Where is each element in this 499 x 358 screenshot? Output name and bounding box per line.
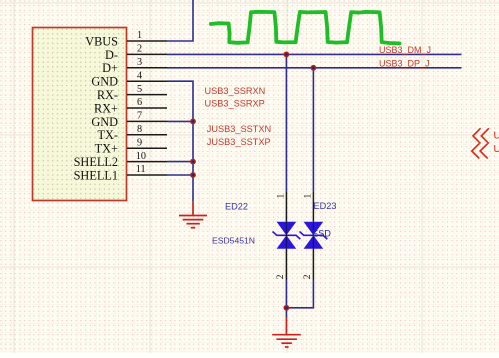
svg-text:4: 4 [137, 70, 142, 81]
svg-text:TX+: TX+ [95, 142, 118, 156]
off-sheet connector 1 [473, 128, 489, 143]
ground 2 [272, 317, 301, 347]
wire pin 10 [167, 161, 193, 163]
wire to ground 2 [285, 308, 287, 318]
pin 10 SHELL2 [74, 151, 167, 169]
svg-text:ESD: ESD [312, 229, 331, 239]
svg-text:9: 9 [137, 137, 142, 148]
pin 9 TX+ [95, 137, 167, 155]
svg-text:TX-: TX- [98, 128, 119, 142]
svg-text:GND: GND [91, 75, 118, 89]
wire ED23 bottom [286, 280, 313, 308]
svg-text:2: 2 [303, 274, 313, 279]
off-sheet connector 2 [472, 144, 488, 159]
junction ground 2 [284, 305, 290, 311]
pin 2 D- [105, 44, 167, 62]
svg-text:11: 11 [136, 164, 146, 175]
svg-text:USB3_DP_J: USB3_DP_J [379, 59, 430, 69]
svg-text:RX-: RX- [97, 88, 118, 102]
wire ED23 top [312, 68, 314, 192]
svg-text:6: 6 [137, 97, 142, 108]
pin 5 RX- [97, 84, 167, 102]
svg-text:1: 1 [137, 30, 142, 41]
junction pin7 [190, 119, 196, 125]
wire ED22 top [285, 54, 287, 191]
TVS diode ED22 symbol [273, 222, 301, 249]
junction DP wire [311, 65, 317, 71]
waveform drawing (green) [211, 12, 400, 44]
connector U? component body [33, 28, 127, 201]
junction pin10 [190, 159, 196, 165]
svg-text:2: 2 [137, 44, 142, 55]
wire USB3_DM_J [167, 53, 462, 55]
svg-text:D-: D- [105, 48, 118, 62]
svg-text:U: U [494, 131, 499, 142]
wire pin 7 [167, 120, 193, 122]
wire GND pin4 down [167, 81, 193, 201]
svg-text:SHELL1: SHELL1 [74, 168, 118, 182]
svg-text:USB3_SSRXP: USB3_SSRXP [205, 99, 265, 109]
svg-text:1: 1 [304, 194, 314, 199]
diode ED22 pin1 [277, 192, 287, 222]
svg-text:RX+: RX+ [94, 101, 118, 115]
wire USB3_DP_J [167, 67, 462, 69]
svg-text:ESD5451N: ESD5451N [212, 235, 255, 245]
junction pin11 [190, 172, 196, 178]
svg-text:SHELL2: SHELL2 [74, 155, 118, 169]
junction DM wire [284, 52, 290, 58]
svg-text:10: 10 [136, 151, 146, 162]
wire pin 11 [167, 174, 193, 176]
svg-text:8: 8 [137, 124, 142, 135]
ground 1 [179, 201, 207, 227]
wire ED22 bottom [285, 280, 287, 309]
pin 1 VBUS [85, 30, 167, 48]
pin 6 RX+ [94, 97, 167, 115]
svg-text:U: U [494, 144, 499, 155]
diode ED22 pin2 [276, 249, 287, 280]
svg-text:USB3_DM_J: USB3_DM_J [379, 45, 431, 55]
diode ED23 pin1 [304, 192, 314, 222]
svg-text:5: 5 [137, 84, 142, 95]
svg-text:JUSB3_SSTXN: JUSB3_SSTXN [207, 124, 271, 134]
pin 8 TX- [98, 124, 168, 142]
pin 7 GND [91, 111, 167, 129]
svg-text:D+: D+ [102, 61, 118, 75]
svg-text:2: 2 [276, 274, 286, 279]
svg-text:1: 1 [277, 194, 287, 199]
svg-text:ED22: ED22 [225, 202, 248, 212]
svg-text:USB3_SSRXN: USB3_SSRXN [205, 86, 266, 96]
diode ED23 pin2 [303, 249, 314, 280]
TVS diode ED23 symbol [300, 222, 328, 249]
svg-text:JUSB3_SSTXP: JUSB3_SSTXP [207, 137, 271, 147]
pin 11 SHELL1 [74, 164, 167, 182]
pin 3 D+ [102, 57, 167, 75]
wire VBUS up [167, 0, 193, 41]
svg-text:VBUS: VBUS [85, 34, 118, 48]
svg-text:7: 7 [137, 111, 142, 122]
svg-text:3: 3 [137, 57, 142, 68]
svg-text:ED23: ED23 [314, 201, 337, 211]
svg-text:GND: GND [91, 115, 118, 129]
pin 4 GND [91, 70, 167, 88]
